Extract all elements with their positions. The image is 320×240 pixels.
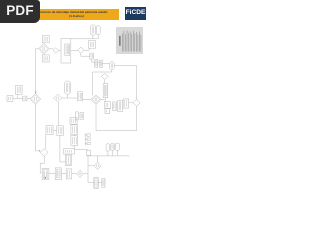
process box H3 bbox=[64, 149, 75, 154]
wire rail y165 into J bbox=[88, 165, 94, 167]
decision D1 bbox=[39, 43, 50, 54]
wire V to W bbox=[62, 97, 78, 99]
wire D4 down to E bbox=[35, 105, 40, 151]
page background bbox=[0, 0, 149, 198]
inner rotated-text rect of R1 bbox=[65, 44, 70, 55]
wire K column stubs bbox=[73, 124, 75, 149]
decision G (big) bbox=[91, 95, 102, 104]
process box C bbox=[23, 96, 27, 101]
wire D1 to D2 bbox=[49, 48, 53, 50]
arrowhead into E bbox=[39, 150, 40, 152]
double box b2 bbox=[55, 168, 61, 180]
dark dot under b1 bbox=[45, 177, 46, 179]
process box T1 bbox=[89, 41, 96, 49]
process box F bbox=[46, 126, 53, 135]
decision I bbox=[77, 170, 84, 177]
wire b1 to b2 bbox=[49, 173, 55, 175]
PDF badge bbox=[0, 0, 40, 23]
tick bracket list bbox=[85, 133, 90, 145]
box bb2 bbox=[102, 178, 105, 187]
stacked box K3 bbox=[71, 136, 78, 146]
cluster box c3 bbox=[118, 100, 123, 111]
process box B bbox=[7, 96, 13, 102]
wire Dq to Q bbox=[104, 80, 106, 84]
cluster box c1 bbox=[104, 102, 110, 109]
PDF badge text bbox=[0, 0, 40, 23]
wire b2 to b3 bbox=[61, 173, 66, 175]
label box L2 bbox=[80, 113, 84, 120]
wire J stem bbox=[97, 156, 99, 162]
process box above D1 bbox=[42, 36, 49, 43]
process box below D1 bbox=[42, 55, 49, 62]
wire F to G2 bbox=[53, 130, 57, 132]
tall process box Q bbox=[103, 84, 108, 98]
double box bb1 bbox=[94, 178, 99, 189]
wire D2 to R1 bbox=[59, 50, 61, 52]
wire E down to b1 bbox=[40, 157, 44, 174]
small box M bbox=[87, 151, 91, 156]
wire W to G bbox=[82, 98, 90, 100]
legend text lines bbox=[122, 31, 140, 52]
terminator S4 bbox=[109, 62, 114, 70]
wire R1 to D3 bbox=[71, 49, 78, 51]
long rail y156 bbox=[87, 155, 130, 157]
container rect R1 bbox=[61, 39, 71, 64]
decision Dq bbox=[101, 73, 108, 79]
g group stems bbox=[108, 150, 118, 156]
wire b3 to I bbox=[72, 173, 77, 175]
decision V bbox=[54, 94, 62, 102]
process box W bbox=[77, 92, 82, 101]
title text line 1 bbox=[33, 10, 111, 14]
wire P2 to P3 bbox=[92, 59, 95, 62]
process box G2 bbox=[57, 126, 64, 136]
wire I to bracket bbox=[83, 173, 88, 175]
terminator g3 bbox=[116, 143, 120, 150]
wire T1 to D3 bbox=[84, 48, 90, 50]
label box L1 bbox=[75, 112, 78, 120]
cluster box c4 bbox=[123, 99, 129, 108]
decision D3 bbox=[78, 47, 84, 53]
cluster box c1 sub bbox=[105, 109, 110, 114]
wire G to c1 bbox=[101, 99, 104, 101]
arrowhead into D4 bbox=[35, 92, 37, 94]
vertical double box H4 bbox=[65, 154, 71, 165]
wire bracket x88 down to bb1 bbox=[88, 156, 94, 183]
wire D3 to P2 bbox=[81, 53, 90, 56]
wire bb1 to bb2 bbox=[98, 182, 102, 184]
start terminator S2 bbox=[96, 26, 100, 35]
box b3 bbox=[66, 169, 72, 179]
wire start stems and top rail bbox=[71, 35, 98, 39]
wire F down into E bbox=[45, 135, 47, 149]
start terminator S1 bbox=[90, 25, 96, 35]
stacked box K1 bbox=[70, 118, 77, 125]
wire P3 to P4 bbox=[98, 62, 100, 64]
decision J bbox=[94, 162, 101, 169]
terminator g2 bbox=[111, 143, 115, 150]
wire C to D4 bbox=[27, 98, 30, 100]
process box P2 bbox=[90, 53, 94, 59]
wire B to C bbox=[13, 98, 23, 100]
wire mid spine V to G2 to H4 bbox=[58, 102, 65, 162]
double box b1 bbox=[42, 169, 49, 180]
wire H3 to M box bbox=[74, 149, 87, 150]
legend box (rotated abbreviation list) bbox=[116, 27, 143, 54]
wire S4 down left rail to G bbox=[93, 70, 112, 96]
legend header line bbox=[119, 36, 121, 46]
cluster box c2 bbox=[113, 102, 117, 111]
decision E bbox=[41, 149, 49, 157]
process box P3 bbox=[95, 59, 98, 67]
stacked box K2 bbox=[71, 125, 78, 135]
yellow title band bbox=[20, 9, 119, 20]
decision H bbox=[133, 99, 140, 106]
wire left spine D1 to D4 bbox=[36, 49, 39, 94]
terminator g1 bbox=[106, 144, 110, 151]
FiCDE logo box bbox=[125, 7, 146, 20]
wire S3 down bbox=[67, 94, 69, 98]
wire big right loop bbox=[96, 66, 137, 131]
wire Q to c1 bbox=[105, 98, 107, 102]
wire c4 to H bbox=[129, 102, 133, 104]
decision D2 bbox=[53, 48, 59, 54]
decision D4 bbox=[30, 94, 41, 105]
process box A bbox=[16, 85, 23, 94]
terminator S3 bbox=[64, 81, 71, 94]
wire P4 to S4 bbox=[102, 63, 109, 65]
title text line 2 bbox=[66, 14, 87, 18]
wire A down bbox=[17, 95, 19, 99]
FiCDE logo text bbox=[125, 7, 146, 20]
process box P4 bbox=[99, 60, 102, 67]
